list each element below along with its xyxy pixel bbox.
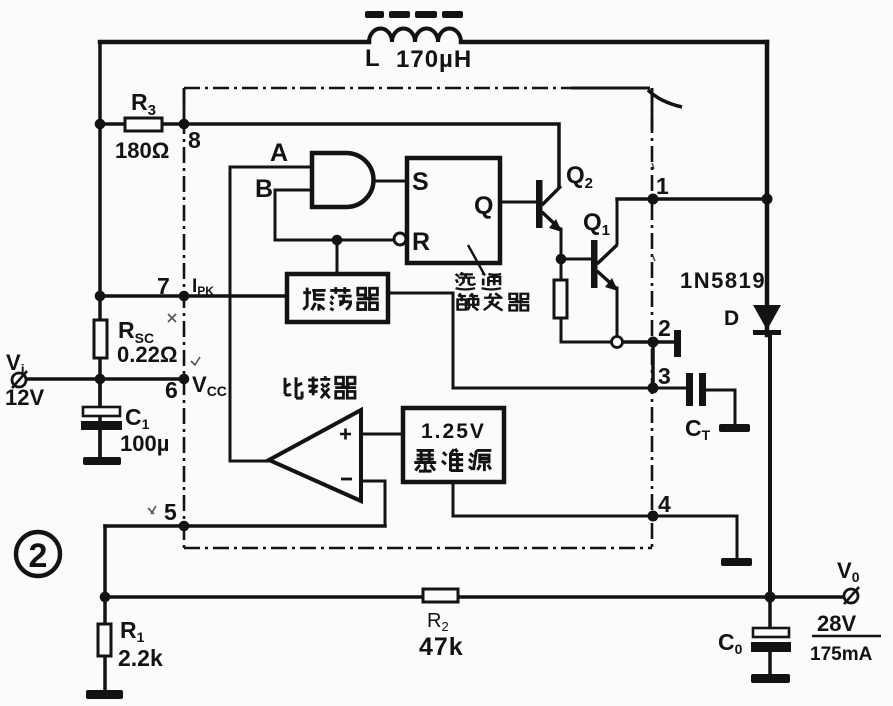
svg-text:R: R — [412, 228, 430, 256]
svg-text:180Ω: 180Ω — [115, 138, 169, 163]
svg-text:D: D — [724, 307, 739, 330]
svg-text:4: 4 — [658, 491, 671, 517]
svg-text:12V: 12V — [5, 385, 44, 410]
svg-text:A: A — [270, 139, 288, 167]
svg-text:170µH: 170µH — [396, 46, 472, 73]
svg-text:B: B — [255, 175, 273, 203]
svg-text:3: 3 — [658, 363, 671, 389]
svg-text:100µ: 100µ — [120, 431, 169, 456]
svg-text:47k: 47k — [419, 633, 464, 661]
svg-text:6: 6 — [165, 377, 178, 403]
svg-text:Q: Q — [474, 192, 493, 220]
svg-text:L: L — [365, 45, 380, 72]
svg-text:7: 7 — [157, 273, 170, 299]
svg-text:S: S — [412, 168, 429, 196]
svg-text:0.22Ω: 0.22Ω — [117, 342, 177, 367]
svg-text:2: 2 — [658, 315, 671, 341]
svg-text:1: 1 — [656, 173, 669, 199]
svg-text:8: 8 — [188, 127, 201, 153]
svg-text:175mA: 175mA — [810, 644, 873, 665]
svg-text:2.2k: 2.2k — [118, 645, 163, 671]
svg-text:5: 5 — [164, 499, 177, 525]
svg-text:28V: 28V — [817, 611, 856, 636]
svg-text:1N5819: 1N5819 — [680, 268, 766, 293]
svg-text:2: 2 — [29, 537, 48, 575]
svg-text:1.25V: 1.25V — [421, 420, 486, 443]
